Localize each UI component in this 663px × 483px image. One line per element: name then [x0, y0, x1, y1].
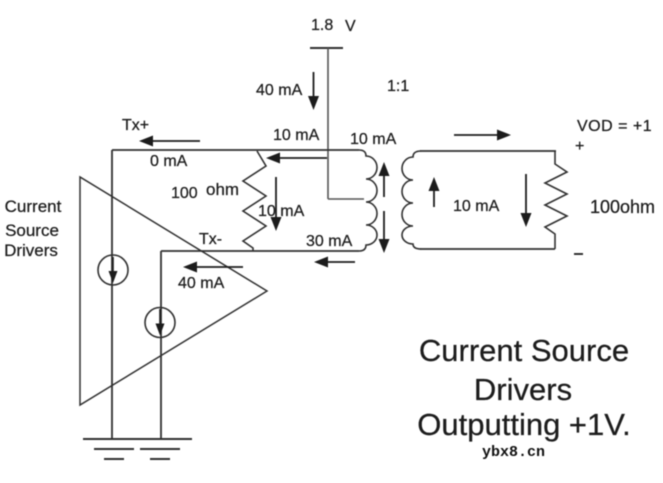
arrow 40mA top down	[313, 72, 315, 98]
arrow Tx+ left	[150, 140, 200, 142]
arrow inside I1	[112, 257, 114, 272]
svg-text:10 mA: 10 mA	[350, 131, 397, 148]
arrow output right	[454, 134, 500, 136]
wire secondary bottom	[420, 248, 555, 250]
svg-text:ybx8.cn: ybx8.cn	[482, 444, 545, 461]
svg-text:10 mA: 10 mA	[453, 198, 500, 215]
svg-text:0 mA: 0 mA	[150, 153, 188, 170]
arrow secondary loop down	[525, 174, 527, 215]
arrow 30mA left	[325, 261, 355, 263]
wire secondary top	[420, 150, 556, 152]
current source I2	[145, 308, 175, 338]
svg-text:Current Source: Current Source	[419, 333, 629, 368]
arrow 40mA bottom left	[194, 266, 243, 268]
svg-text:1:1: 1:1	[387, 78, 409, 95]
arrow primary down	[383, 211, 385, 241]
arrow primary up	[383, 174, 385, 197]
svg-text:Drivers: Drivers	[4, 241, 58, 260]
svg-text:1.8: 1.8	[311, 17, 333, 34]
current source I1	[98, 255, 128, 285]
transformer T1 primary winding	[359, 150, 377, 251]
svg-text:40 mA: 40 mA	[178, 275, 225, 292]
svg-text:30 mA: 30 mA	[306, 233, 353, 250]
wire supply vertical	[327, 48, 329, 199]
svg-text:Tx-: Tx-	[199, 231, 222, 248]
svg-text:10 mA: 10 mA	[273, 127, 320, 144]
resistor R2 100 ohm right	[545, 151, 567, 249]
svg-text:ohm: ohm	[206, 180, 239, 199]
ground bar	[83, 438, 192, 440]
transformer T1 secondary winding	[402, 151, 421, 249]
ground lines row3	[104, 458, 170, 460]
wire vertical driver 2	[160, 251, 162, 439]
ground lines row2	[94, 448, 180, 450]
wire Tx- horizontal	[161, 250, 359, 252]
caption Current Source Drivers Outputting +1V.	[417, 333, 630, 442]
arrow inside I2	[159, 309, 161, 324]
svg-text:Tx+: Tx+	[122, 117, 149, 134]
arrow into resistor top left	[277, 157, 327, 159]
supply bar 1.8V	[310, 47, 343, 49]
op-amp triangle driver	[80, 177, 267, 405]
wire center tap	[328, 198, 364, 200]
svg-text:Outputting +1V.: Outputting +1V.	[417, 407, 630, 442]
svg-text:40 mA: 40 mA	[256, 82, 303, 99]
svg-text:Drivers: Drivers	[474, 372, 572, 407]
arrow secondary loop up	[433, 189, 435, 207]
svg-text:V: V	[345, 18, 356, 35]
svg-text:+: +	[575, 138, 584, 155]
svg-text:100: 100	[171, 185, 198, 202]
resistor R1 100 ohm left	[243, 151, 266, 251]
svg-text:10 mA: 10 mA	[258, 203, 305, 220]
svg-text:VOD = +1: VOD = +1	[577, 118, 652, 135]
svg-text:100ohm: 100ohm	[590, 197, 655, 217]
wire vertical driver 1	[111, 150, 113, 439]
svg-text:Current: Current	[5, 197, 62, 216]
svg-text:Source: Source	[5, 221, 59, 240]
label minus	[574, 253, 583, 255]
wire Tx+ horizontal	[112, 149, 359, 151]
label Current Source Drivers left	[4, 197, 62, 260]
arrow resistor current down	[275, 177, 277, 219]
